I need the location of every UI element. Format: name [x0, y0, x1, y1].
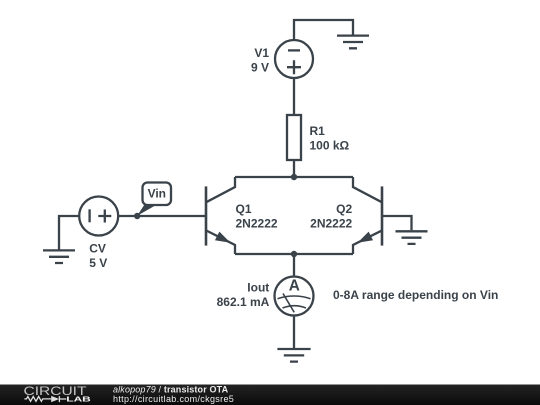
wire bottom rail: [235, 253, 353, 255]
svg-text:V1: V1: [254, 46, 269, 60]
voltage source CV: [79, 197, 118, 236]
svg-text:LAB: LAB: [66, 394, 91, 403]
svg-text:CV: CV: [89, 242, 106, 256]
wire bottom rail to ammeter: [293, 254, 295, 277]
svg-text:Vin: Vin: [148, 187, 166, 201]
svg-text:2N2222: 2N2222: [310, 217, 352, 231]
node bottom rail junction: [291, 251, 297, 257]
footer bar: [0, 385, 540, 405]
svg-text:Iout: Iout: [247, 281, 269, 295]
ground G4: [43, 250, 75, 263]
svg-text:alkopop79 / transistor OTA: alkopop79 / transistor OTA: [113, 384, 229, 394]
transistor Q1: [206, 177, 235, 254]
svg-text:100 kΩ: 100 kΩ: [310, 139, 350, 153]
label Vin text: [148, 187, 166, 201]
flag Vin: [137, 183, 171, 216]
wire CV left to ground: [59, 216, 79, 250]
resistor R1: [287, 115, 301, 160]
svg-text:2N2222: 2N2222: [236, 217, 278, 231]
svg-text:Q2: Q2: [336, 202, 352, 216]
label CV value: [89, 242, 107, 271]
svg-text:R1: R1: [310, 124, 326, 138]
label V1 value: [251, 46, 269, 74]
svg-text:Q1: Q1: [236, 202, 252, 216]
node top rail junction: [291, 174, 297, 180]
ground G1: [337, 36, 369, 49]
ammeter Iout: [275, 277, 314, 316]
wire Q1 base: [119, 215, 207, 217]
svg-text:862.1 mA: 862.1 mA: [217, 295, 270, 309]
label R1 value: [310, 124, 350, 152]
svg-text:9 V: 9 V: [251, 61, 269, 75]
label Iout value: [217, 281, 270, 309]
wire Q2 base to ground: [382, 216, 412, 230]
label annotation 0-8A range: [333, 288, 498, 302]
svg-text:A: A: [289, 278, 300, 295]
wire V1 to R1: [293, 78, 295, 115]
wire V1 top to ground G1: [294, 20, 353, 40]
ground G3: [277, 349, 310, 362]
svg-text:0-8A range depending on Vin: 0-8A range depending on Vin: [333, 288, 498, 302]
label Q2: [310, 202, 352, 230]
label Q1: [236, 202, 278, 230]
label ammeter A: [289, 278, 300, 295]
wire CV to Q1 base handled above; node Vin dot: [134, 213, 140, 219]
svg-text:5 V: 5 V: [89, 256, 107, 270]
wire ammeter to ground: [293, 316, 295, 349]
logo CircuitLab: [24, 386, 91, 403]
wire R1 to top rail: [293, 160, 295, 177]
transistor Q2: [353, 177, 382, 254]
wire top rail: [235, 176, 353, 178]
footer credit text: [113, 384, 234, 404]
svg-text:http://circuitlab.com/ckgsre5: http://circuitlab.com/ckgsre5: [113, 394, 234, 404]
ground G2: [396, 231, 428, 244]
voltage source V1: [275, 40, 313, 78]
